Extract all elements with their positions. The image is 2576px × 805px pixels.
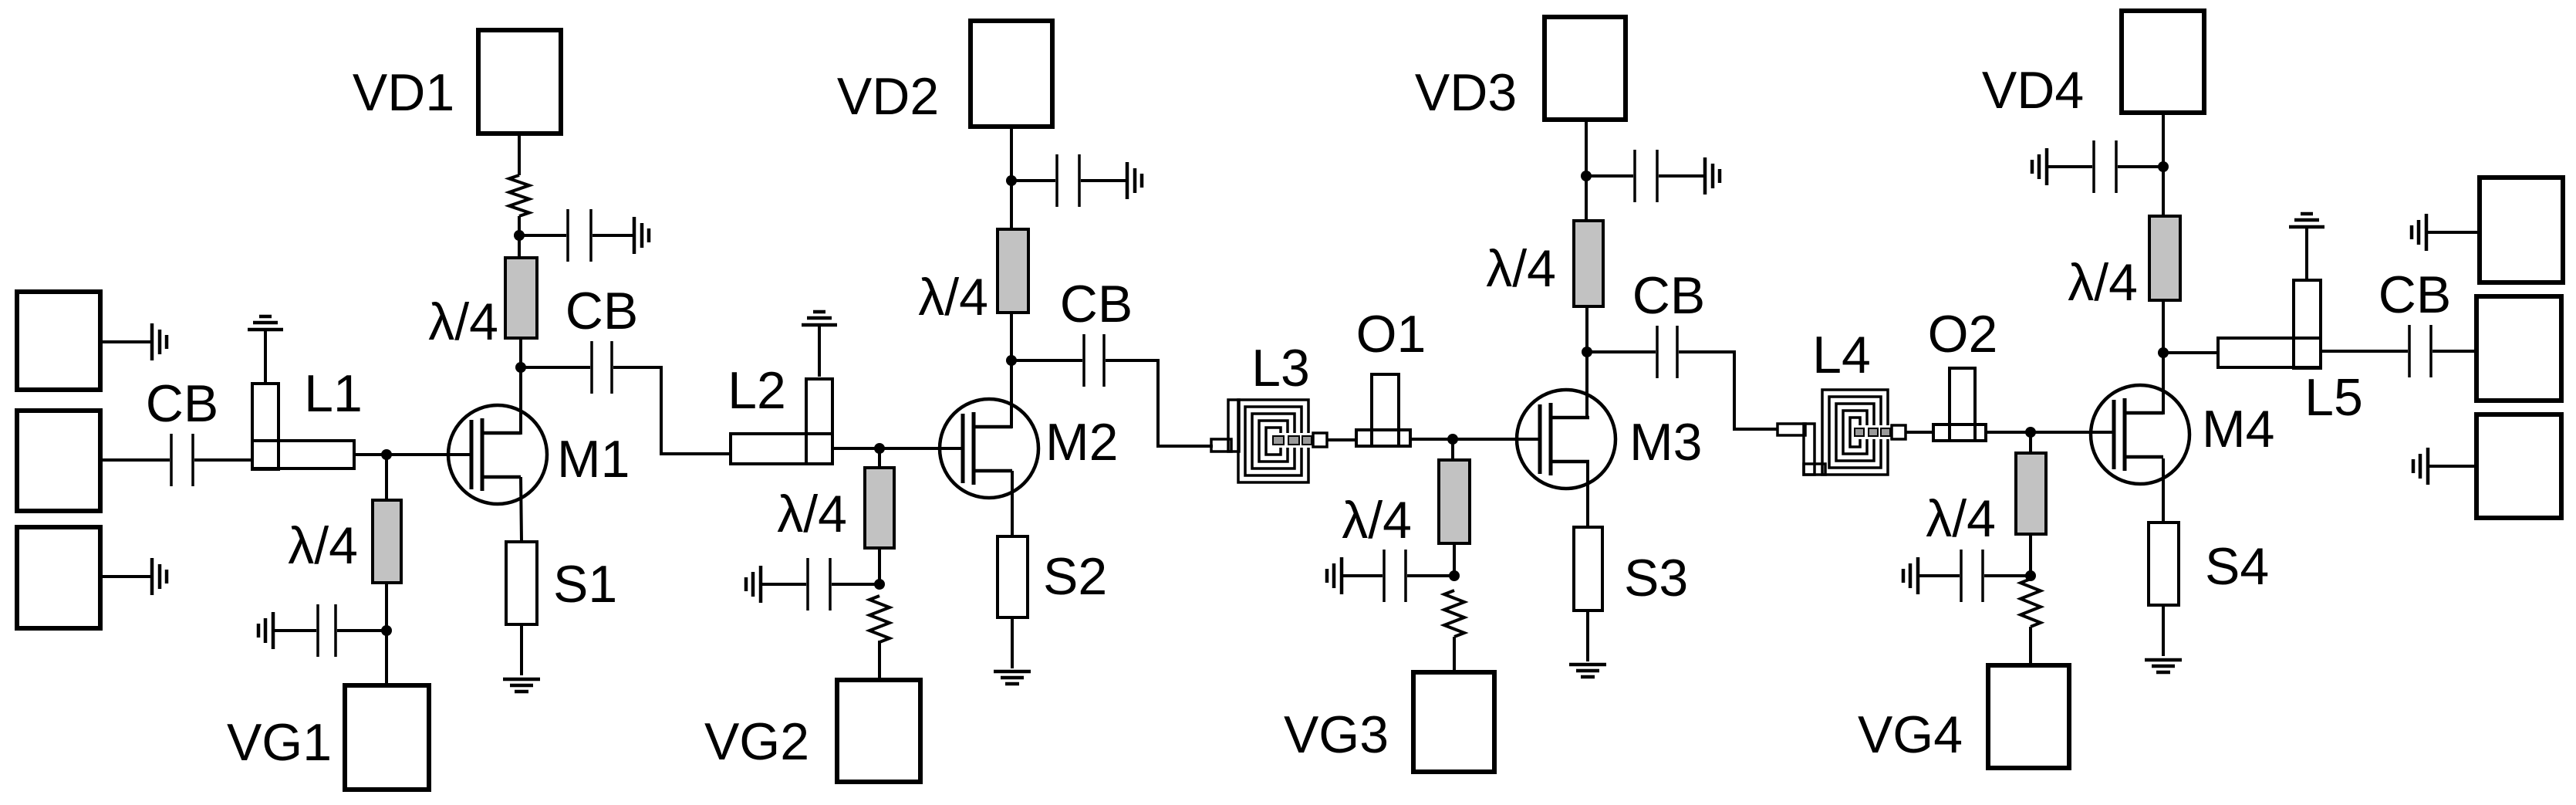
ground (output top)	[2412, 214, 2426, 251]
open stub O2 (series bar)	[1933, 424, 1986, 441]
wire output bottom pad to ground	[2428, 465, 2476, 468]
node bypass VG2	[874, 579, 885, 590]
pad VG2	[837, 680, 920, 782]
wire drain M2 to CB	[1011, 359, 1082, 362]
capacitor bypass VD2	[1057, 154, 1079, 207]
wire node to bypass cap VG4	[1984, 574, 2031, 577]
wire input top pad to ground	[100, 340, 152, 343]
svg-text:M2: M2	[1045, 413, 1118, 472]
svg-text:CB: CB	[566, 282, 638, 340]
wire resistor to lambda/4 (drain M1)	[518, 216, 521, 258]
wire source M1 to S1	[521, 477, 522, 542]
capacitor CB (input)	[171, 434, 193, 486]
wire node to bypass cap VD3	[1586, 174, 1633, 178]
node bypass VG3	[1449, 570, 1460, 581]
svg-text:λ/4: λ/4	[288, 516, 358, 575]
inductor L4 (spiral) turns	[1822, 390, 1888, 475]
svg-text:S2: S2	[1043, 547, 1107, 606]
svg-text:CB: CB	[1060, 275, 1133, 333]
lambda/4 line (gate bias M2)	[865, 468, 894, 548]
input ground pad bottom	[17, 527, 100, 628]
wire drain M4 to L5	[2163, 351, 2218, 354]
svg-text:M1: M1	[557, 430, 630, 489]
output signal pad	[2476, 296, 2561, 401]
wire CB stage3 to L4	[1679, 352, 1778, 429]
svg-text:CB: CB	[2378, 266, 2451, 324]
source line S1	[506, 542, 537, 624]
svg-text:λ/4: λ/4	[428, 293, 498, 351]
wire VD3 to lambda/4	[1585, 120, 1588, 221]
input ground pad top	[17, 292, 100, 390]
capacitor bypass VD1	[568, 209, 591, 262]
ground (source M3)	[1569, 665, 1606, 677]
inductor L4 underpass	[1853, 425, 1906, 439]
svg-text:L2: L2	[728, 361, 786, 420]
wire L3 to O1	[1327, 438, 1356, 441]
pad VG4	[1988, 665, 2069, 768]
wire CB stage2 to L3	[1106, 360, 1213, 446]
output ground pad top	[2480, 178, 2563, 282]
wire resistor to VG3	[1453, 637, 1456, 672]
svg-text:VG4: VG4	[1858, 705, 1963, 764]
source line S3	[1574, 527, 1602, 611]
node bypass VD2	[1006, 175, 1017, 186]
svg-text:CB: CB	[146, 374, 218, 433]
svg-text:λ/4: λ/4	[2068, 253, 2138, 312]
svg-text:S4: S4	[2205, 537, 2269, 596]
inductor L3 (spiral) input lead	[1211, 400, 1239, 452]
svg-text:λ/4: λ/4	[918, 268, 988, 326]
wire bypass cap VG2 to ground	[761, 583, 806, 586]
wire input CB to L1	[194, 458, 252, 462]
inductor L2 (series line)	[731, 434, 832, 464]
ground (bypass VD1)	[634, 217, 649, 254]
ground (L5 stub)	[2289, 214, 2324, 227]
node gate bias M1	[381, 449, 392, 460]
inductor L4 (spiral) input lead	[1778, 424, 1825, 475]
capacitor CB (stage 1)	[592, 341, 612, 394]
ground (source M4)	[2145, 660, 2182, 672]
svg-text:S1: S1	[553, 555, 617, 614]
wire node to bypass cap VG3	[1407, 574, 1454, 577]
lambda/4 line (drain M3)	[1574, 221, 1603, 306]
wire node to lambda/4 (gate M4)	[2029, 432, 2032, 453]
lambda/4 line (drain M1)	[505, 258, 537, 338]
svg-text:L4: L4	[1812, 326, 1871, 384]
capacitor bypass VD4	[2094, 140, 2116, 193]
pad VD4	[2122, 11, 2204, 113]
svg-text:O1: O1	[1356, 305, 1426, 364]
pad VG3	[1413, 672, 1494, 772]
wire S1 to ground	[520, 624, 523, 675]
ground (bypass VD3)	[1705, 157, 1720, 194]
inductor L1 (series line)	[252, 441, 354, 468]
capacitor bypass VG2	[808, 558, 830, 611]
wire bypass cap VD3 to ground	[1659, 174, 1705, 178]
source line S2	[998, 536, 1028, 617]
node gate bias M3	[1447, 434, 1458, 445]
capacitor bypass VD3	[1635, 150, 1657, 202]
node drain M3	[1582, 347, 1592, 357]
lambda/4 line (gate bias M3)	[1439, 460, 1470, 543]
wire VD4 to lambda/4	[2162, 113, 2165, 216]
wire node to lambda/4 (gate M3)	[1451, 439, 1454, 460]
svg-text:VD1: VD1	[353, 63, 454, 122]
wire resistor to VG2	[878, 641, 881, 680]
node drain M2	[1006, 355, 1017, 366]
stub of L5 (shunt, grounded)	[2294, 280, 2321, 368]
wire node to bypass cap VD2	[1011, 179, 1055, 182]
ground (input bottom)	[152, 558, 167, 595]
wire O2 to M4 gate	[1986, 431, 2114, 434]
wire bypass cap VD2 to ground	[1081, 179, 1127, 182]
wire node to lambda/4 (gate M2)	[878, 448, 881, 468]
open stub O2 (vertical)	[1950, 368, 1975, 441]
pad VD2	[971, 21, 1052, 127]
resistor (VG3 bias)	[1444, 590, 1464, 637]
wire drain M3 to CB	[1587, 350, 1656, 353]
wire drain M1 to CB	[521, 366, 590, 369]
lambda/4 line (drain M4)	[2149, 216, 2180, 300]
wire S4 to ground	[2162, 605, 2165, 656]
wire L2 stub to ground	[818, 325, 821, 377]
wire node to bypass cap VD4	[2118, 165, 2163, 168]
wire S3 to ground	[1586, 611, 1589, 661]
capacitor bypass VG1	[318, 604, 336, 657]
resistor (VD1 bias)	[509, 175, 529, 216]
transistor M3	[1517, 390, 1615, 489]
wire node to bypass cap VD1	[519, 234, 566, 237]
wire bypass cap VD1 to ground	[593, 234, 634, 237]
ground (input top)	[152, 323, 167, 360]
svg-text:λ/4: λ/4	[777, 485, 847, 543]
svg-text:M3: M3	[1629, 413, 1702, 472]
inductor L5 (series line)	[2218, 338, 2321, 367]
ground (bypass VG4)	[1903, 557, 1918, 594]
pad VG1	[345, 685, 429, 790]
node bypass VG1	[381, 625, 392, 636]
wire L1 to M1 gate	[354, 453, 471, 456]
wire input pad to CB	[100, 458, 170, 462]
wire VD1 to resistor	[518, 134, 521, 175]
capacitor CB (output)	[2409, 325, 2431, 377]
capacitor bypass VG4	[1961, 550, 1983, 602]
svg-text:O2: O2	[1928, 305, 1998, 364]
svg-text:λ/4: λ/4	[1486, 239, 1556, 298]
svg-text:VG2: VG2	[704, 712, 809, 771]
capacitor bypass VG3	[1384, 550, 1406, 602]
open stub O1 (vertical)	[1372, 374, 1399, 446]
wire drain M2	[1010, 313, 1013, 428]
wire L5 to output CB	[2321, 350, 2408, 353]
wire L5 stub to ground	[2305, 227, 2308, 280]
wire O1 to M3 gate	[1410, 438, 1540, 441]
wire lambda/4 to node VG3	[1453, 543, 1456, 577]
wire node to lambda/4 (gate M1)	[385, 455, 388, 500]
wire node to bypass cap VG1	[337, 629, 387, 632]
wire bypass cap VG4 to ground	[1918, 574, 1960, 577]
ground (bypass VG1)	[258, 612, 273, 649]
capacitor CB (stage 3)	[1657, 326, 1677, 378]
ground (output bottom)	[2413, 448, 2428, 485]
node bypass VD1	[514, 230, 525, 241]
wire output top pad to ground	[2426, 231, 2480, 234]
node drain M1	[515, 362, 526, 373]
wire bypass cap VD4 to ground	[2047, 165, 2092, 168]
wire drain M3	[1585, 306, 1588, 419]
wire CB stage1 to L2	[613, 367, 731, 454]
ground (L2 stub)	[802, 312, 837, 325]
svg-text:L3: L3	[1251, 339, 1310, 397]
wire node to bypass cap VG2	[832, 583, 879, 586]
wire source M4 to S4	[2162, 458, 2165, 523]
lambda/4 line (gate bias M1)	[373, 500, 401, 583]
pad VD1	[478, 30, 561, 134]
lambda/4 line (gate bias M4)	[2016, 453, 2046, 534]
node drain M4	[2158, 347, 2169, 358]
stub of L2 (shunt, grounded)	[806, 379, 832, 464]
wire output CB to pad	[2433, 350, 2476, 353]
ground (L1 stub)	[248, 316, 283, 330]
svg-text:L5: L5	[2304, 368, 2363, 427]
ground (bypass VD2)	[1127, 162, 1142, 199]
transistor M1	[448, 405, 547, 504]
transistor M4	[2091, 385, 2189, 484]
resistor (VG2 bias)	[869, 596, 890, 642]
wire input bottom pad to ground	[100, 575, 152, 578]
node gate bias M2	[874, 443, 885, 454]
pad VD3	[1545, 17, 1626, 120]
wire lambda/4 to VG1	[385, 583, 388, 685]
node gate bias M4	[2025, 427, 2036, 438]
inductor L3 (spiral) turns	[1238, 400, 1308, 482]
source line S4	[2149, 523, 2179, 605]
transistor M2	[940, 399, 1038, 498]
svg-text:M4: M4	[2202, 400, 2274, 458]
node bypass VD3	[1581, 171, 1592, 181]
wire resistor to VG4	[2029, 627, 2032, 665]
svg-text:λ/4: λ/4	[1926, 489, 1996, 548]
svg-text:L1: L1	[304, 364, 363, 423]
svg-text:CB: CB	[1632, 266, 1705, 325]
input signal pad	[17, 411, 100, 511]
wire source M3 to S3	[1586, 462, 1589, 527]
wire lambda/4 to node VG4	[2029, 534, 2032, 577]
svg-text:VG3: VG3	[1284, 705, 1389, 764]
svg-text:S3: S3	[1624, 549, 1688, 607]
svg-text:λ/4: λ/4	[1342, 491, 1412, 550]
wire L1 stub to ground	[264, 330, 267, 384]
ground (source M1)	[503, 679, 540, 692]
wire VD2 to lambda/4	[1010, 127, 1013, 229]
ground (bypass VG3)	[1327, 557, 1342, 594]
node bypass VG4	[2025, 570, 2036, 581]
stub of L1 (shunt, grounded)	[252, 384, 279, 469]
wire drain M4	[2162, 300, 2165, 414]
ground (source M2)	[994, 671, 1031, 684]
wire source M2 to S2	[1011, 471, 1014, 536]
ground (bypass VG2)	[746, 566, 761, 603]
svg-text:VD4: VD4	[1982, 61, 2084, 120]
wire L2 to M2 gate	[832, 447, 963, 450]
svg-text:VD2: VD2	[837, 67, 939, 126]
inductor L3 underpass	[1271, 433, 1327, 448]
resistor (VG4 bias)	[2021, 579, 2041, 627]
svg-text:VD3: VD3	[1415, 63, 1517, 122]
output ground pad bottom	[2476, 414, 2561, 518]
lambda/4 line (drain M2)	[998, 229, 1028, 313]
ground (bypass VD4)	[2032, 148, 2047, 185]
node bypass VD4	[2158, 161, 2169, 172]
wire lambda/4 to node VG2	[878, 548, 881, 587]
open stub O1 (series bar)	[1356, 430, 1410, 446]
wire bypass cap VG1 to ground	[273, 629, 316, 632]
wire S2 to ground	[1011, 617, 1014, 668]
svg-text:VG1: VG1	[227, 713, 332, 772]
wire bypass cap VG3 to ground	[1342, 574, 1383, 577]
wire drain M1	[519, 338, 522, 435]
capacitor CB (stage 2)	[1084, 334, 1104, 387]
wire L4 to O2	[1906, 431, 1933, 434]
